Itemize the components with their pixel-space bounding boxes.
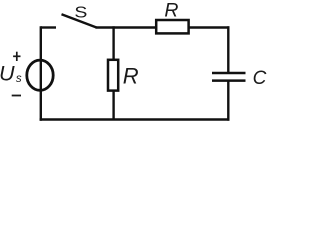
svg-text:s: s	[16, 73, 22, 85]
wire: top-left segment from left corner to switch left contact	[41, 26, 56, 28]
svg-text:C: C	[253, 68, 267, 89]
wire: top middle segment from switch pivot to resistor R (top)	[96, 26, 157, 28]
label + (source polarity)	[13, 52, 20, 61]
wire: middle branch lower lead	[112, 91, 114, 120]
switch S blade (open)	[62, 14, 97, 27]
voltage source Us (circle)	[27, 60, 53, 90]
wire: left branch vertical (through source)	[40, 26, 42, 120]
wire: middle branch upper lead	[112, 26, 114, 59]
wire: right branch upper lead	[227, 26, 229, 72]
wire: right branch lower lead	[227, 82, 229, 121]
capacitor C plates	[212, 73, 246, 81]
resistor R (middle, vertical box)	[108, 60, 118, 91]
wire: top-right segment from resistor to top-right corner	[189, 26, 230, 28]
resistor R (top, horizontal box)	[156, 20, 188, 33]
svg-text:S: S	[74, 5, 87, 22]
label - (source polarity)	[12, 95, 21, 97]
svg-text:R: R	[164, 0, 178, 22]
svg-text:U: U	[0, 62, 15, 86]
svg-text:R: R	[123, 64, 139, 89]
wire: bottom return wire	[40, 118, 230, 120]
